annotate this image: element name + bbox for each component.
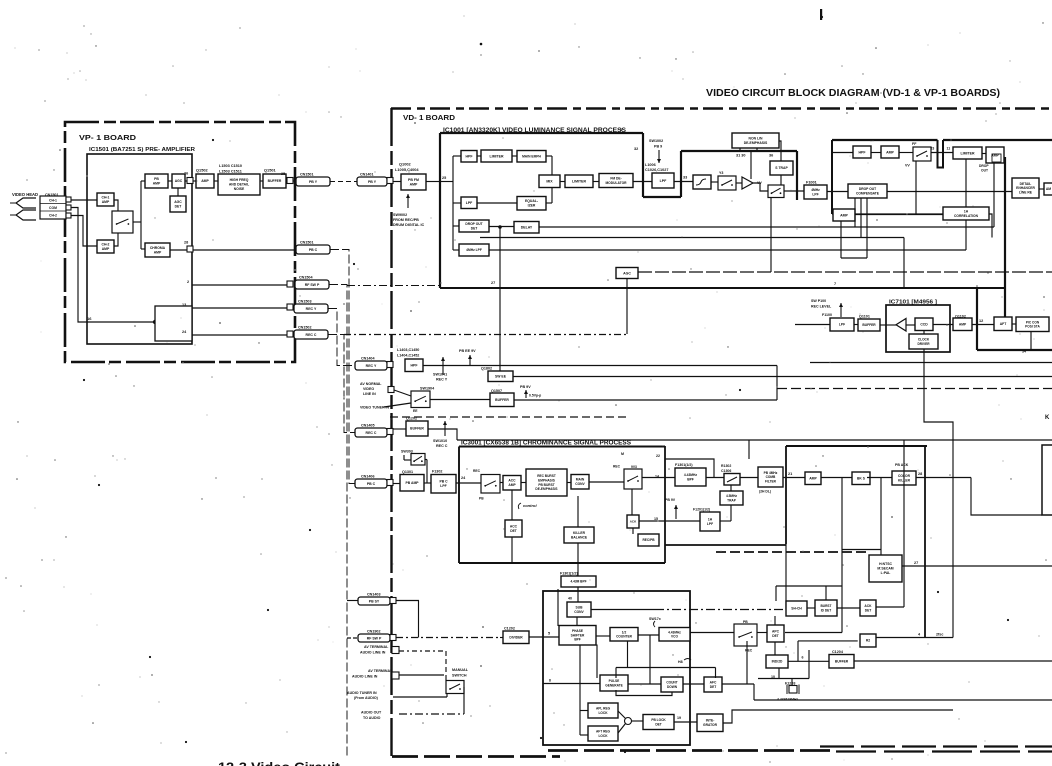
stray mark top center [820,9,822,20]
wire limiter2 to demod [593,181,599,183]
svg-text:40: 40 [568,597,572,601]
svg-text:27: 27 [914,561,918,565]
label PB sw1 [479,497,484,501]
wire lpf f1002 out [674,181,693,183]
label Q1501 [264,168,277,173]
svg-text:F1301[1/2]: F1301[1/2] [560,572,578,576]
wire CN1902 left stub [347,637,358,639]
svg-text:CN1501: CN1501 [300,173,314,177]
filter HPF ynr [853,146,871,158]
svg-text:ID DET: ID DET [821,608,832,612]
stray dot upper middle [480,43,483,46]
limiter LIMITER 2 [565,175,593,188]
svg-text:25: 25 [442,176,446,180]
label L1006 [645,163,656,167]
pin 33 [683,176,687,180]
wire CN1403 out [396,600,419,602]
svg-text:FILTER: FILTER [765,480,777,484]
balance KILLER BALANCE [564,527,594,543]
pin square CN1902 [390,635,396,641]
wire ch2 amp to switch [114,233,118,246]
wire doc leg c [866,198,868,258]
wire q1507 out [514,399,777,401]
svg-text:SW9002: SW9002 [393,213,407,217]
label OUT [981,169,988,173]
svg-text:HPF: HPF [859,150,867,154]
svg-text:AMP: AMP [153,182,161,186]
wire cn1902 to divider dashed [396,637,500,639]
pin 25 luma [442,176,446,180]
svg-text:33: 33 [683,176,687,180]
wire hpf to limiter [477,155,481,157]
label C1306 [721,469,731,473]
connector CN1501 head block [40,196,66,219]
wire audio line 1 [399,650,446,652]
IC1001 outline top [440,132,643,134]
wire vv switch to f1001 [784,190,804,192]
pin CN1501-1 [66,197,71,202]
wire apc down to ind [774,642,776,655]
label IC1001 luminance title [443,127,626,134]
svg-text:CN1502: CN1502 [298,326,312,330]
wire delay out long [539,226,994,228]
pin 28 vp1 [184,241,188,245]
pin CN1501-2 [66,205,71,210]
wire crystal feed [791,679,793,686]
wire crystal bottom [758,678,809,680]
svg-text:MIX: MIX [546,180,553,184]
wire audio tuner up [446,693,448,697]
svg-text:TRAP: TRAP [727,498,737,502]
shifter PHASE SHIFTER BPF [559,626,596,646]
svg-text:BUFFER: BUFFER [835,659,849,663]
label L1503 C1510 [219,164,242,168]
wire r1302 to comb [740,477,758,479]
integrator INTEGRATOR [697,714,723,732]
label AV NORMAL [360,382,382,386]
label FF [912,142,917,146]
IC1001 outline right drop [796,151,798,200]
svg-text:PB 9: PB 9 [654,145,662,149]
svg-text:AND DETAIL: AND DETAIL [229,183,249,187]
pin 10 [771,675,775,679]
label AUDIO LINE IN 2 [352,675,378,679]
wire 1h lpf left [639,520,700,522]
wire q1502 to hpf filter [214,180,218,182]
label F1203 [785,682,795,686]
wire dashed y388 [777,388,1052,390]
wire demod to lpf f1002 [633,181,652,183]
box right edge K [1042,445,1052,515]
svg-text:28: 28 [184,241,188,245]
wire f1301b second leg [557,589,559,626]
svg-text:5: 5 [548,632,550,636]
svg-text:REC C: REC C [306,333,317,337]
wire limiter3 to amp5 [982,153,986,155]
svg-text:COM: COM [49,206,57,210]
svg-text:15: 15 [654,517,658,521]
svg-text:REC Y: REC Y [436,378,448,382]
wire luma input [440,181,453,183]
wire ind out up to r2 [797,641,799,661]
svg-text:LPF: LPF [466,201,473,205]
wire aft input [580,734,588,736]
svg-text:DETAIL: DETAIL [1020,182,1032,186]
label REC Y [436,378,448,382]
pin square 24 vp1 [287,331,293,337]
switch Y3 [718,176,736,190]
svg-text:ACK: ACK [864,604,872,608]
svg-text:BUFFER: BUFFER [862,323,876,327]
pin 24 vp1 [182,330,187,334]
svg-text:AMP: AMP [154,251,162,255]
wire agc out dashed [638,271,1052,273]
svg-text:AMP: AMP [959,322,967,326]
wire deemp to ynr switch [711,181,718,183]
wire r2 out [876,637,953,639]
wire pulse to countdown [628,683,661,685]
label CN1501 head [45,193,59,197]
block H NTSC M SECAM L PAL [869,555,902,582]
label SW17 [649,617,661,621]
label Q1802 [481,367,492,371]
filter PB 4MHz COMB FILTER [758,467,783,487]
pin square 28 vp1 [187,246,193,252]
de-emphasis leg a [739,148,741,151]
de-emphasis leg b [756,148,758,151]
label AUDIO OUT [361,711,382,715]
svg-text:MAIN: MAIN [576,478,585,482]
buffer Q1501 BUFFER [263,174,286,188]
pin audio line in 1 [392,647,399,654]
svg-text:L1503 C1511: L1503 C1511 [219,170,242,174]
svg-text:IC7101 [M4956 ]: IC7101 [M4956 ] [889,300,937,306]
sw17 squiggle [654,621,656,627]
amp Q1301 PB AMP [400,475,424,492]
amp AMP ynr [881,146,899,158]
driver CLOCK DRIVER [909,334,938,349]
svg-text:CN1404: CN1404 [361,357,375,361]
block IND/2D [766,655,788,668]
svg-text:26: 26 [184,172,188,176]
svg-text:IC1501 (BA7251 S) PRE- AMPLIF: IC1501 (BA7251 S) PRE- AMPLIFIER [89,147,195,153]
label F1301b [560,572,578,576]
detector ACK sw2 [627,515,639,528]
label PB 9V chroma [665,498,676,502]
svg-text:AM: AM [1046,187,1051,191]
wire pin 13 out [192,307,294,309]
svg-text:F1201(1/2): F1201(1/2) [693,508,710,512]
wire q1101 to ic7101 [880,324,896,326]
svg-text:F1302: F1302 [432,470,442,474]
agc luma AGC [616,268,638,279]
wire counter down to nest [627,641,629,667]
wire acc det down [511,537,513,563]
wire switch to limiter [931,152,953,154]
wire nest left [775,586,777,601]
wire tuner in to sw [384,403,411,407]
wire nest y667 [616,667,716,669]
label Q1301 [402,470,413,474]
speck 4 [624,751,626,753]
label 2H DL [759,490,771,494]
svg-text:GRATOR: GRATOR [703,723,718,727]
svg-text:REC C: REC C [366,431,377,435]
wire killer balance down [577,543,579,576]
svg-text:C1026,C1027: C1026,C1027 [645,168,668,172]
label SW1002 [649,139,663,143]
arrow SW control to pb fm amp [406,194,410,208]
label REC sw1 [473,469,481,473]
label IC3001 chroma title [461,441,631,447]
svg-text:36: 36 [769,154,773,158]
wire rec level feedback [344,334,627,336]
wire afc to y700 [753,684,755,700]
wire doc to detail enhancer [887,191,1012,193]
svg-text:EQUAL-: EQUAL- [525,199,538,203]
svg-text:12: 12 [979,319,983,323]
arrow SW1010 [443,421,447,436]
svg-text:REC: REC [745,649,753,653]
label K right edge [1045,415,1050,421]
wire de-emphasis to trap [779,141,781,161]
switch rec/pb 3 [734,624,757,646]
label SW303 [401,450,413,454]
label FROM REC/PB [393,218,419,222]
svg-text:25: 25 [281,172,285,176]
svg-text:LPF: LPF [707,522,713,526]
svg-text:4.43MHz: 4.43MHz [684,473,698,477]
compensator DROP OUT COMPENSATE [848,184,887,198]
wire phase up to subconv [576,617,578,626]
wire aft to circle [618,724,626,734]
label IC7101 M4956 [889,300,937,306]
wire triangle to ccd [906,324,915,326]
block R2 [860,634,876,647]
svg-text:31 30: 31 30 [736,154,746,158]
svg-text:CN1406: CN1406 [361,475,375,479]
wire q1507 up to rec y bus [776,366,778,401]
IC3001 outline notch bottom [665,544,786,546]
label PB ACK [895,463,909,467]
pin 4 [918,633,921,637]
speck 12 [739,389,741,391]
wire y285 dash to luma edge [347,285,440,287]
wire mix vertical [551,156,553,203]
svg-text:CH-1: CH-1 [49,199,57,203]
demodulator FM DEMODULATOR [599,174,633,188]
wire sw303 stub up [403,455,405,460]
wire cn1405 to q1202 [393,428,406,430]
detector AFC DET [704,677,722,692]
amp CHROMA AMP [145,243,170,257]
wire agc out pin 26 [185,180,196,182]
wire RF SW P down bus x347 [329,285,347,758]
speck 9 [540,737,542,739]
amp CH-2 AMP [97,240,114,253]
svg-text:SH-CH: SH-CH [791,607,802,611]
pin 19 [677,716,681,720]
pin 34 [1022,350,1026,354]
pin 27 chroma [914,561,918,565]
wire hpf to amp ynr [871,152,881,154]
wire bks killer tap down [841,478,843,633]
connector CN1902 RF SW P [358,630,390,643]
label Q1502 [196,168,209,173]
attenuator R1302 [724,474,740,486]
wire apc det out [785,632,842,634]
wire f1001 to doc [827,191,848,193]
wire y258 link [841,257,867,259]
svg-text:BUFFER: BUFFER [410,427,424,431]
wire head com to pin16 [71,208,155,323]
svg-text:REC Y: REC Y [366,364,377,368]
label Q1102 [955,315,966,319]
label SW1041 [433,373,447,377]
label PB sw2 [631,465,637,469]
svg-text:NOISE: NOISE [234,187,245,191]
filter F1100 LPF [830,318,854,331]
VD-1 board top border [391,107,1052,110]
IC1001 outline notch left [642,133,644,197]
amp chroma AMP [805,472,821,485]
svg-text:F1301(1/2): F1301(1/2) [675,463,693,467]
svg-text:Q1502: Q1502 [196,168,209,173]
wire sw1 to acc amp [500,482,503,484]
lock AFT REG LOCK [588,726,618,741]
correlator 1H CORRELATION [943,207,989,220]
svg-text:M:SECAM: M:SECAM [877,567,893,571]
label 0.5Vp-p [529,394,541,398]
arrow SW1041 [441,357,445,375]
svg-text:ENHANCER: ENHANCER [1016,186,1035,190]
svg-text:L:PAL: L:PAL [881,571,891,575]
wire audio line 1 down [445,651,447,681]
wire phase ref down x580 [579,645,581,736]
wire f1301 to r1302 [706,477,724,479]
svg-text:GENERATE: GENERATE [605,683,622,687]
wire integrator out [723,710,953,723]
label SW1904 [420,387,435,391]
svg-text:LIMITER: LIMITER [572,180,586,184]
IC3001 outline divider [664,446,666,563]
svg-text:DRUM DIGITAL IC: DRUM DIGITAL IC [393,223,425,227]
label PB sw3 [743,620,748,624]
buffer C1204 BUFFER [829,655,854,669]
pin 15 chroma [654,517,658,521]
pin 5 [548,632,550,636]
filter F1301 4.43MHz BPF [675,468,706,486]
svg-text:LIMITER: LIMITER [961,151,975,155]
wire nest left leg [615,668,617,679]
wire to 4mhz lpf row [453,249,459,251]
svg-text:REC C: REC C [436,444,448,448]
wire apl to circle [618,711,626,719]
svg-text:PB AMP: PB AMP [405,481,419,485]
label Q1101 [859,315,870,319]
filter LPF F1002 [652,173,674,188]
svg-text:AUDIO LINE IN: AUDIO LINE IN [360,651,386,655]
pin square 2 vp1 [287,281,293,287]
wire pb amp to f1302 [424,482,431,484]
wire sw303 out [425,459,427,461]
wire amp to bks [821,477,853,479]
svg-text:L1403,C1450: L1403,C1450 [397,348,419,352]
svg-text:REC Y: REC Y [306,307,317,311]
detector APC DET [767,625,784,642]
buffer Q1507 BUFFER [490,393,514,407]
label Q1507 [491,389,502,393]
connector CN1501 PB C [296,241,330,255]
wire ind down [778,668,780,679]
wire ch1 amp to switch [114,200,118,211]
svg-text:4MHz: 4MHz [811,188,820,192]
svg-text:DET: DET [175,205,183,209]
svg-text:MANUAL: MANUAL [452,668,469,672]
svg-text:12-3 Video Circuit: 12-3 Video Circuit [218,760,341,766]
svg-text:REC LEVEL: REC LEVEL [811,305,832,309]
svg-text:AUDIO LINE IN: AUDIO LINE IN [352,675,378,679]
svg-text:Y3: Y3 [719,171,723,175]
amp CH-1 AMP [97,193,114,206]
junction at sub box [153,320,157,324]
wire buffer out long [854,660,1052,662]
connector CN1405 REC C [355,424,387,438]
trap 4.5MHz TRAP [720,491,743,505]
wire x904 lower segment [903,440,905,607]
wire hntsc out pin 27 [902,565,1052,567]
amp right edge [1044,183,1052,195]
wire q1802 out bus [513,376,1052,378]
svg-text:H:NTSC: H:NTSC [879,562,892,566]
filter MAIN EMPH [517,151,546,163]
wire to lpf [453,202,461,204]
connector CN1401 PB Y [357,173,387,187]
label SW P100 [811,299,826,303]
label IC1501 (BA7251S) PRE-AMPLIFIER [89,147,195,153]
wire burst to main conv [567,482,571,484]
wire hntsc top leg long [880,478,882,557]
wire to hpf [453,155,461,157]
pin 2 vp1 [187,280,189,284]
svg-text:22: 22 [656,454,660,458]
pin 26 [184,172,188,176]
filter F1001 LPF [804,185,827,199]
pin video line in [388,387,394,393]
wire agc bottom leg [626,279,628,335]
svg-text:IZER: IZER [528,204,536,208]
amp PB FM AMP [401,174,426,190]
limiter LIMITER 1 [481,150,512,162]
pin 21 chroma [788,472,792,476]
wire sw3 down to afc [746,641,748,684]
wire x347 to CN1403 [347,600,358,602]
de-emphasis glyph [696,179,706,185]
svg-text:VIDEO: VIDEO [363,387,374,391]
svg-text:SW1002: SW1002 [649,139,663,143]
wire rec c bus y440 [457,439,1052,441]
svg-text:21: 21 [788,472,792,476]
svg-text:1H: 1H [964,210,969,214]
IC1001 outline top right [681,150,797,152]
svg-text:LOCK: LOCK [598,734,608,738]
junction delay x500 [498,225,502,229]
svg-text:Q1202: Q1202 [406,417,417,421]
filter F1301b BPF [561,576,596,587]
wire head ch2 to amp [71,216,97,247]
svg-text:0.5Vp-p: 0.5Vp-p [529,394,541,398]
svg-text:AGC: AGC [623,271,631,275]
